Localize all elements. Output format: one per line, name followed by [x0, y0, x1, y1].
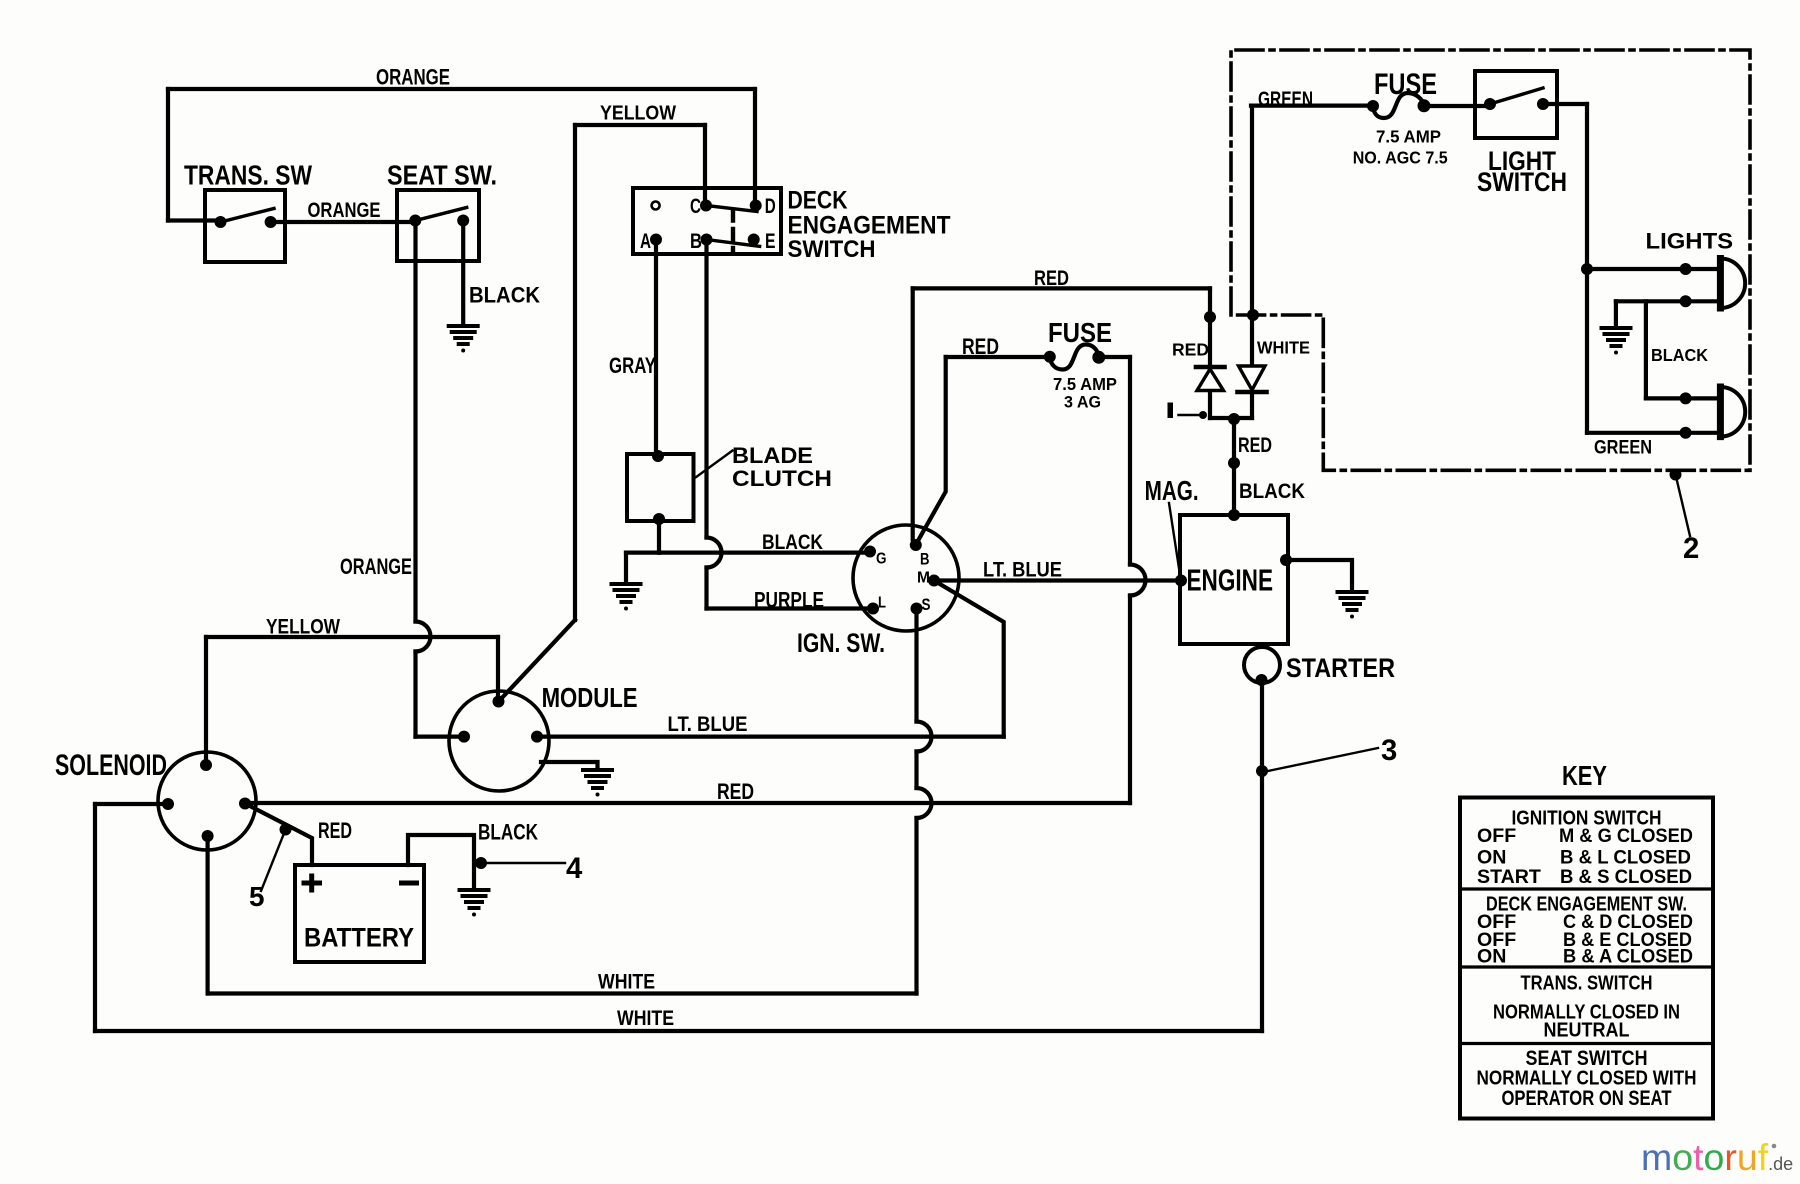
svg-text:YELLOW: YELLOW	[600, 103, 677, 125]
svg-text:D: D	[765, 193, 776, 218]
svg-text:S: S	[922, 595, 931, 614]
svg-text:M & G CLOSED: M & G CLOSED	[1559, 825, 1693, 847]
svg-text:B & S CLOSED: B & S CLOSED	[1560, 866, 1692, 888]
svg-text:NEUTRAL: NEUTRAL	[1544, 1020, 1630, 1042]
svg-text:4: 4	[566, 852, 583, 885]
svg-text:ORANGE: ORANGE	[308, 199, 381, 222]
svg-text:3: 3	[1381, 734, 1397, 767]
svg-text:BLACK: BLACK	[469, 283, 540, 308]
svg-text:LT. BLUE: LT. BLUE	[983, 559, 1062, 582]
svg-text:ORANGE: ORANGE	[340, 554, 412, 579]
svg-text:7.5 AMP: 7.5 AMP	[1053, 374, 1117, 394]
svg-text:CLUTCH: CLUTCH	[732, 466, 832, 491]
svg-text:ORANGE: ORANGE	[376, 65, 450, 90]
svg-text:GREEN: GREEN	[1594, 437, 1652, 458]
svg-text:WHITE: WHITE	[1257, 338, 1310, 358]
svg-text:B & A CLOSED: B & A CLOSED	[1563, 946, 1693, 968]
svg-text:ENGINE: ENGINE	[1187, 565, 1274, 598]
svg-text:BLACK: BLACK	[1651, 345, 1708, 365]
svg-text:SWITCH: SWITCH	[1477, 167, 1567, 197]
svg-text:OPERATOR ON SEAT: OPERATOR ON SEAT	[1502, 1087, 1672, 1110]
svg-text:G: G	[876, 551, 887, 568]
svg-text:MAG.: MAG.	[1145, 475, 1199, 506]
svg-text:BLACK: BLACK	[1239, 480, 1305, 503]
svg-text:RED: RED	[717, 779, 754, 804]
svg-text:YELLOW: YELLOW	[266, 614, 340, 639]
svg-text:LIGHTS: LIGHTS	[1646, 229, 1734, 254]
svg-text:SOLENOID: SOLENOID	[55, 749, 167, 782]
svg-text:5: 5	[249, 881, 265, 912]
svg-text:BLACK: BLACK	[478, 820, 538, 845]
svg-text:A: A	[640, 228, 651, 253]
svg-text:START: START	[1477, 866, 1541, 888]
svg-text:WHITE: WHITE	[598, 971, 655, 994]
svg-text:7.5 AMP: 7.5 AMP	[1376, 127, 1441, 147]
svg-text:RED: RED	[318, 818, 352, 843]
svg-text:RED: RED	[1172, 340, 1209, 360]
svg-text:TRANS. SW: TRANS. SW	[184, 160, 313, 191]
svg-text:3 AG: 3 AG	[1064, 393, 1101, 412]
svg-text:FUSE: FUSE	[1374, 68, 1437, 101]
svg-text:KEY: KEY	[1562, 760, 1607, 791]
svg-text:LT. BLUE: LT. BLUE	[668, 711, 748, 736]
svg-text:RED: RED	[962, 334, 999, 359]
svg-text:SWITCH: SWITCH	[788, 236, 876, 263]
svg-text:BATTERY: BATTERY	[304, 922, 414, 953]
svg-text:RED: RED	[1034, 267, 1069, 290]
svg-text:GREEN: GREEN	[1258, 88, 1313, 111]
svg-text:M: M	[917, 569, 930, 586]
svg-text:BLADE: BLADE	[732, 443, 813, 468]
svg-text:NO. AGC 7.5: NO. AGC 7.5	[1353, 148, 1448, 168]
svg-text:C: C	[690, 193, 701, 218]
svg-text:FUSE: FUSE	[1048, 317, 1112, 348]
svg-text:E: E	[765, 228, 776, 253]
svg-text:OFF: OFF	[1477, 825, 1516, 847]
svg-text:TRANS. SWITCH: TRANS. SWITCH	[1521, 973, 1653, 995]
svg-text:DECK: DECK	[788, 186, 848, 214]
svg-text:L: L	[878, 595, 886, 612]
svg-text:PURPLE: PURPLE	[754, 588, 824, 613]
svg-text:ON: ON	[1477, 946, 1506, 968]
svg-text:GRAY: GRAY	[609, 353, 656, 378]
svg-text:STARTER: STARTER	[1286, 653, 1395, 683]
svg-text:IGN. SW.: IGN. SW.	[797, 628, 885, 658]
svg-text:MODULE: MODULE	[542, 682, 638, 713]
svg-text:RED: RED	[1238, 434, 1272, 457]
svg-text:B: B	[920, 550, 930, 568]
svg-text:BLACK: BLACK	[762, 531, 823, 554]
svg-text:2: 2	[1683, 532, 1699, 565]
svg-text:WHITE: WHITE	[617, 1007, 674, 1030]
svg-text:SEAT SW.: SEAT SW.	[387, 160, 497, 191]
svg-text:B: B	[690, 228, 702, 253]
